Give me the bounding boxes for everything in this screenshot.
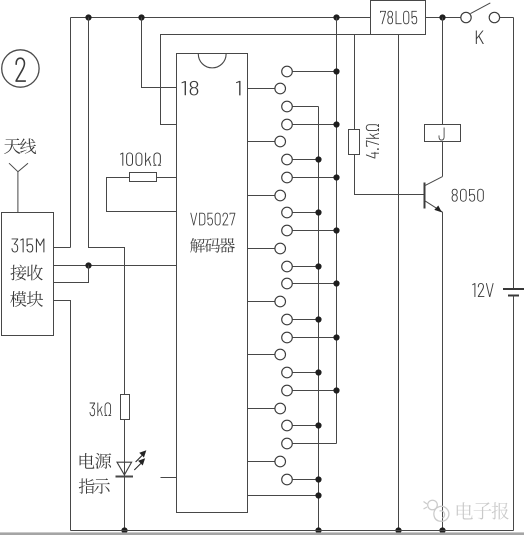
right rail upper bbox=[513, 18, 515, 289]
wire: 315M data out to IC pin (left) bbox=[54, 265, 177, 267]
relay J coil bbox=[442, 18, 444, 125]
right rail lower bbox=[513, 296, 515, 531]
wire: top rail to IC pin 18 bbox=[142, 18, 177, 88]
node: junction on data wire bbox=[85, 262, 91, 268]
pin stub row y=141.5 bbox=[248, 141, 275, 143]
regulator U3: 78L05 box bbox=[371, 1, 426, 35]
node: junction top rail / pin18 feed bbox=[138, 14, 144, 20]
contact circle row 5 to bus L1 bbox=[282, 154, 293, 165]
wire: 100k left end jog to IC pin bbox=[107, 178, 177, 212]
label 天线 (antenna) bbox=[4, 138, 20, 154]
contact circle row 11 to bus L1 bbox=[282, 261, 293, 272]
IC ground stub to L1 bbox=[248, 495, 319, 497]
bottom edge scan band bbox=[0, 532, 524, 535]
pin stub row y=88.5 bbox=[248, 88, 275, 90]
contact circle row 12 to bus L2 bbox=[282, 278, 293, 289]
contact circle row 6 to bus L2 bbox=[282, 172, 293, 183]
wire: LED cathode to bottom rail bbox=[124, 477, 126, 531]
contact circle row 20 to bus L1 bbox=[282, 420, 293, 431]
wire: resistor to LED bbox=[124, 420, 126, 477]
wire: switch to right rail bbox=[500, 17, 514, 19]
wire: 78L05 output down to bottom rail bbox=[398, 35, 400, 531]
LED D1 power indicator bbox=[117, 462, 132, 475]
antenna symbol bbox=[9, 163, 18, 213]
contact circle row 0 to L2 bbox=[282, 66, 293, 77]
resistor R2 3kΩ bbox=[121, 395, 130, 420]
watermark bird logo bbox=[424, 500, 449, 521]
wire: 315M ground pin to lower left rail bbox=[54, 301, 71, 531]
pin stub row y=301.5 bbox=[248, 301, 275, 303]
pin label 1 bbox=[236, 81, 240, 95]
node: emitter at bottom rail bbox=[439, 527, 445, 533]
contact circle row 2 starts L1 bbox=[282, 101, 293, 112]
circled figure number 2 bbox=[2, 50, 39, 87]
wire: 315M lower pin branch to junction bbox=[54, 266, 89, 283]
bus L2 vertical bbox=[336, 18, 338, 444]
node: junction top rail / LED string bbox=[85, 14, 91, 20]
watermark 电子报 bbox=[457, 502, 473, 519]
resistor R3 4.7kΩ with feed bbox=[354, 35, 356, 130]
contact circle row 9 to bus L2 bbox=[282, 225, 293, 236]
pin stub row y=461.5 bbox=[248, 461, 275, 463]
wire: emitter to bottom rail bbox=[442, 212, 444, 530]
switch K bbox=[461, 12, 471, 22]
pin stub row y=248.5 bbox=[248, 248, 275, 250]
contact circle row 3 to bus L2 bbox=[282, 119, 293, 130]
wire: 78L05 input from switch side bbox=[426, 17, 461, 19]
IC notch bbox=[198, 54, 226, 68]
contact circle row 8 to bus L1 bbox=[282, 207, 293, 218]
bottom rail bbox=[71, 530, 514, 532]
pin stub row y=408.5 bbox=[248, 408, 275, 410]
wire: 4.7k to transistor base bbox=[355, 155, 425, 195]
wire: 100k right end to IC pin bbox=[157, 177, 177, 179]
wire: LED supply string from top rail bbox=[89, 18, 125, 395]
pin label 18 bbox=[181, 81, 198, 95]
contact circle row 21, L2 lower end bbox=[282, 438, 293, 449]
label 电源指示 (power indicator) bbox=[80, 453, 95, 469]
contact circle row 17 to bus L1 bbox=[282, 367, 293, 378]
wire: top supply rail horizontal bbox=[71, 17, 371, 19]
pin stub row y=354.5 bbox=[248, 354, 275, 356]
unconnected stub at IC lower-left bbox=[161, 477, 177, 479]
contact circle row 14 to bus L1 bbox=[282, 314, 293, 325]
label 解码器 (decoder) bbox=[190, 238, 205, 253]
wire: left rail upper segment bbox=[70, 18, 72, 248]
transistor Q1 8050 bbox=[423, 182, 425, 208]
node: junction top rail / bus L2 bbox=[333, 14, 339, 20]
node: junction relay feed bbox=[439, 14, 445, 20]
bus L1 vertical bbox=[318, 107, 320, 531]
node: 78L05 output at bottom rail bbox=[395, 527, 401, 533]
node: junction bottom rail / LED bbox=[121, 527, 127, 533]
battery B1 12V bbox=[503, 288, 524, 290]
module U2: 315M receiver box bbox=[2, 213, 54, 336]
node: L1 to bottom rail bbox=[315, 527, 321, 533]
wire: 315M pin to left rail bbox=[54, 247, 71, 249]
resistor R1 100kΩ bbox=[120, 152, 161, 165]
wire: upper bus y=34.7 from IC area to 78L05 bbox=[161, 35, 371, 125]
contact circle row 18 to bus L2 bbox=[282, 385, 293, 396]
LED light arrows bbox=[134, 451, 145, 470]
label VD5027 bbox=[190, 213, 235, 226]
IC U1: VD5027 decoder box bbox=[177, 54, 248, 513]
pin stub row y=195.5 bbox=[248, 195, 275, 197]
contact circle row 23 to bus L1 bbox=[282, 474, 293, 485]
contact circle row 15 to bus L2 bbox=[282, 332, 293, 343]
